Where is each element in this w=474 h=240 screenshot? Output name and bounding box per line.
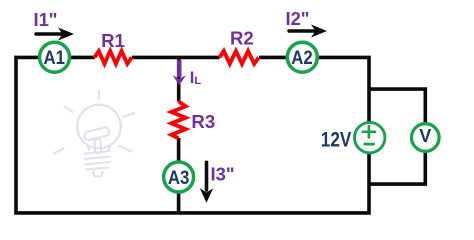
svg-text:R3: R3 bbox=[191, 111, 215, 132]
svg-text:I3": I3" bbox=[211, 164, 235, 185]
current arrow I1 bbox=[36, 32, 61, 35]
wire: voltmeter bracket bbox=[369, 89, 425, 184]
resistor R3 bbox=[171, 101, 185, 138]
voltmeter V bbox=[412, 124, 440, 152]
resistor R1 bbox=[95, 51, 132, 64]
voltage source 12V bbox=[355, 122, 385, 152]
wire: top segment between R1 and R2 bbox=[132, 56, 220, 60]
svg-text:R1: R1 bbox=[101, 30, 125, 51]
svg-text:A2: A2 bbox=[291, 48, 313, 69]
svg-text:A3: A3 bbox=[168, 168, 190, 189]
current arrow I3 bbox=[205, 162, 209, 190]
resistor R2 bbox=[220, 51, 259, 64]
current arrow I2 bbox=[289, 29, 314, 32]
ammeter A1 bbox=[40, 42, 70, 72]
svg-text:I2": I2" bbox=[285, 8, 309, 29]
wire: middle branch lower bbox=[177, 138, 181, 213]
ammeter A2 bbox=[287, 42, 317, 72]
ammeter A3 bbox=[164, 162, 194, 192]
svg-text:I1": I1" bbox=[33, 9, 57, 30]
wire: middle branch upper bbox=[177, 57, 181, 101]
svg-text:V: V bbox=[419, 126, 431, 146]
light bulb watermark bbox=[54, 91, 135, 177]
wire: outer loop (top/left/bottom/right) bbox=[16, 57, 369, 213]
svg-text:A1: A1 bbox=[43, 48, 65, 69]
svg-text:R2: R2 bbox=[230, 28, 254, 49]
svg-text:12V: 12V bbox=[321, 129, 352, 152]
current arrow IL bbox=[177, 60, 181, 77]
